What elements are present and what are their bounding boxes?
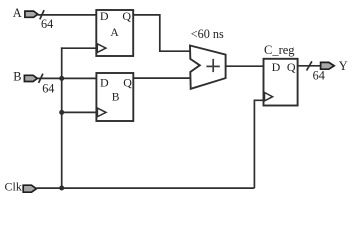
net label Y xyxy=(339,59,348,73)
wire B to D of register B xyxy=(37,77,96,79)
bus width label 64 (B) xyxy=(42,82,54,96)
input port B xyxy=(24,75,37,81)
svg-text:B: B xyxy=(13,69,21,83)
delay label <60 ns xyxy=(191,27,224,41)
net label Clk xyxy=(5,179,22,193)
junction: B wire crossing clock riser xyxy=(59,76,64,81)
wire Clk line to clock of C_reg xyxy=(254,100,263,188)
junction: Clk line to clock riser xyxy=(59,186,64,191)
register B xyxy=(96,73,133,121)
wire Q of register B to adder lower input xyxy=(133,77,190,79)
junction: clock riser to register B clock xyxy=(59,110,64,115)
svg-text:D: D xyxy=(272,60,281,74)
svg-text:64: 64 xyxy=(41,17,53,31)
wire Q of register A to adder upper input xyxy=(133,15,190,51)
svg-text:A: A xyxy=(13,6,22,20)
clock riser wire xyxy=(61,47,63,188)
wire Q of C_reg to output port Y xyxy=(298,65,322,67)
net label A xyxy=(13,6,22,20)
input port A xyxy=(25,11,38,17)
adder xyxy=(190,46,226,89)
register A xyxy=(96,9,133,56)
bus slash B xyxy=(39,74,43,83)
svg-text:Q: Q xyxy=(287,60,296,74)
svg-text:Q: Q xyxy=(123,75,132,89)
svg-text:C_reg: C_reg xyxy=(264,43,295,57)
svg-text:64: 64 xyxy=(313,68,325,82)
wire adder output to D of C_reg xyxy=(226,65,264,67)
bus width label 64 (Y) xyxy=(313,68,325,82)
svg-text:D: D xyxy=(100,9,109,23)
bus slash Y xyxy=(307,61,312,70)
svg-text:B: B xyxy=(112,91,120,104)
svg-text:A: A xyxy=(110,26,119,39)
svg-text:Q: Q xyxy=(122,9,131,23)
label C_reg xyxy=(264,43,295,57)
svg-text:D: D xyxy=(100,75,109,89)
bus slash A xyxy=(40,10,44,19)
bus width label 64 (A) xyxy=(41,17,53,31)
svg-text:<60 ns: <60 ns xyxy=(191,27,224,41)
wire clock riser to clock of register A xyxy=(61,47,96,49)
svg-text:Clk: Clk xyxy=(5,179,22,193)
input port Clk xyxy=(23,185,36,192)
output port Y xyxy=(321,62,335,69)
wire clock riser to clock of register B xyxy=(62,111,97,113)
svg-text:64: 64 xyxy=(42,82,54,96)
net label B xyxy=(13,69,21,83)
wire A to D of register A xyxy=(38,14,97,16)
register C_reg xyxy=(264,59,298,106)
svg-text:Y: Y xyxy=(339,59,348,73)
wire Clk horizontal run xyxy=(36,187,254,189)
